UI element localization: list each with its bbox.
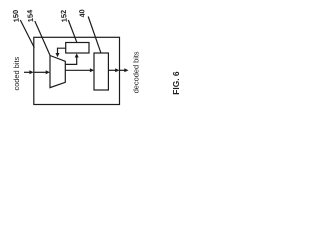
- svg-text:FIG. 6: FIG. 6: [171, 71, 181, 95]
- svg-text:decoded bits: decoded bits: [132, 51, 141, 93]
- outer box 150 (decoder assembly): [34, 37, 120, 104]
- box 40: [94, 53, 108, 90]
- svg-text:152: 152: [59, 10, 69, 23]
- arrowhead into trapezoid: [46, 70, 50, 74]
- wire box 152 to trapezoid (down): [58, 48, 66, 54]
- arrowhead decoded bits: [124, 68, 128, 72]
- svg-text:coded bits: coded bits: [12, 57, 21, 91]
- svg-text:40: 40: [77, 9, 87, 18]
- svg-text:150: 150: [11, 10, 21, 23]
- leader 154: [35, 21, 50, 56]
- wire trapezoid to box 40: [65, 69, 91, 71]
- wire coded bits inside: [34, 71, 47, 73]
- arrowhead coded bits outside: [29, 70, 33, 74]
- trapezoid 154: [50, 56, 65, 88]
- arrowhead down into trapezoid: [56, 53, 60, 57]
- arrowhead into box 40: [90, 68, 94, 72]
- svg-text:154: 154: [25, 9, 35, 23]
- arrowhead at outer box right edge: [115, 68, 119, 72]
- wire decoded bits outside: [120, 69, 126, 71]
- leader 40: [88, 17, 101, 54]
- leader 152: [68, 20, 77, 43]
- wire trapezoid to box 152 (tap up): [65, 57, 76, 65]
- box 152: [66, 43, 89, 54]
- arrowhead up into box 152: [75, 53, 79, 57]
- leader 150: [20, 20, 34, 48]
- wire decoded bits inside: [108, 69, 116, 71]
- wire coded bits outside: [24, 71, 30, 73]
